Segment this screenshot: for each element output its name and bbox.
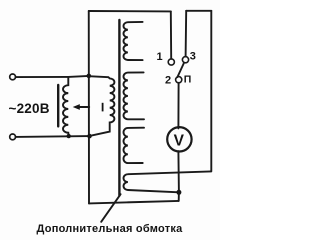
terminal X1 (top input): [10, 74, 16, 80]
svg-text:Дополнительная обмотка: Дополнительная обмотка: [37, 223, 184, 235]
terminal X2 (bottom input): [10, 134, 16, 140]
autotransformer T1 core bar: [57, 85, 59, 126]
wire voltmeter down: [177, 151, 180, 192]
svg-text:3: 3: [190, 51, 196, 63]
svg-text:~220В: ~220В: [9, 101, 50, 116]
primary winding I: [89, 76, 115, 136]
svg-text:П: П: [184, 74, 192, 86]
switch pole contact 2: [176, 77, 182, 83]
wire terminal X2 to junction: [16, 135, 90, 138]
junction dot voltmeter/additional winding: [176, 190, 181, 195]
label I (primary): [102, 103, 104, 112]
switch contact 3: [182, 57, 188, 63]
bottom rail wire: [89, 201, 179, 204]
secondary winding w1: [124, 22, 143, 60]
wire contact 3 drop: [185, 11, 188, 57]
junction dot rail/bottom input: [87, 134, 92, 139]
svg-text:V: V: [174, 133, 185, 150]
wire pole to voltmeter: [177, 83, 179, 129]
autotransformer T1 winding: [63, 77, 69, 136]
wire terminal X1 to autotransformer top: [16, 76, 69, 78]
top rail wire right: [186, 10, 211, 12]
wire contact 1 drop: [170, 11, 172, 58]
wire dot to bottom rail: [178, 192, 180, 201]
additional winding w4: [124, 171, 211, 192]
transformer T2 core: [118, 20, 120, 196]
node rail (left vertical line): [88, 11, 90, 203]
voltmeter PV circle: [167, 127, 191, 151]
junction dot rail/top input: [87, 74, 92, 79]
pointer line to additional winding: [101, 194, 120, 222]
wire autotransformer top to node rail: [68, 76, 89, 77]
junction dot autotransformer bottom: [67, 134, 71, 138]
secondary winding w2: [124, 72, 145, 119]
right rail: [210, 11, 212, 172]
wiper wire from node rail: [79, 106, 89, 108]
wiper arrowhead: [73, 104, 80, 110]
switch blade П: [177, 63, 184, 78]
switch contact 1: [168, 59, 174, 65]
top rail wire: [89, 10, 171, 12]
svg-text:2: 2: [165, 74, 171, 86]
svg-text:1: 1: [157, 51, 163, 63]
secondary winding w3: [124, 128, 145, 163]
